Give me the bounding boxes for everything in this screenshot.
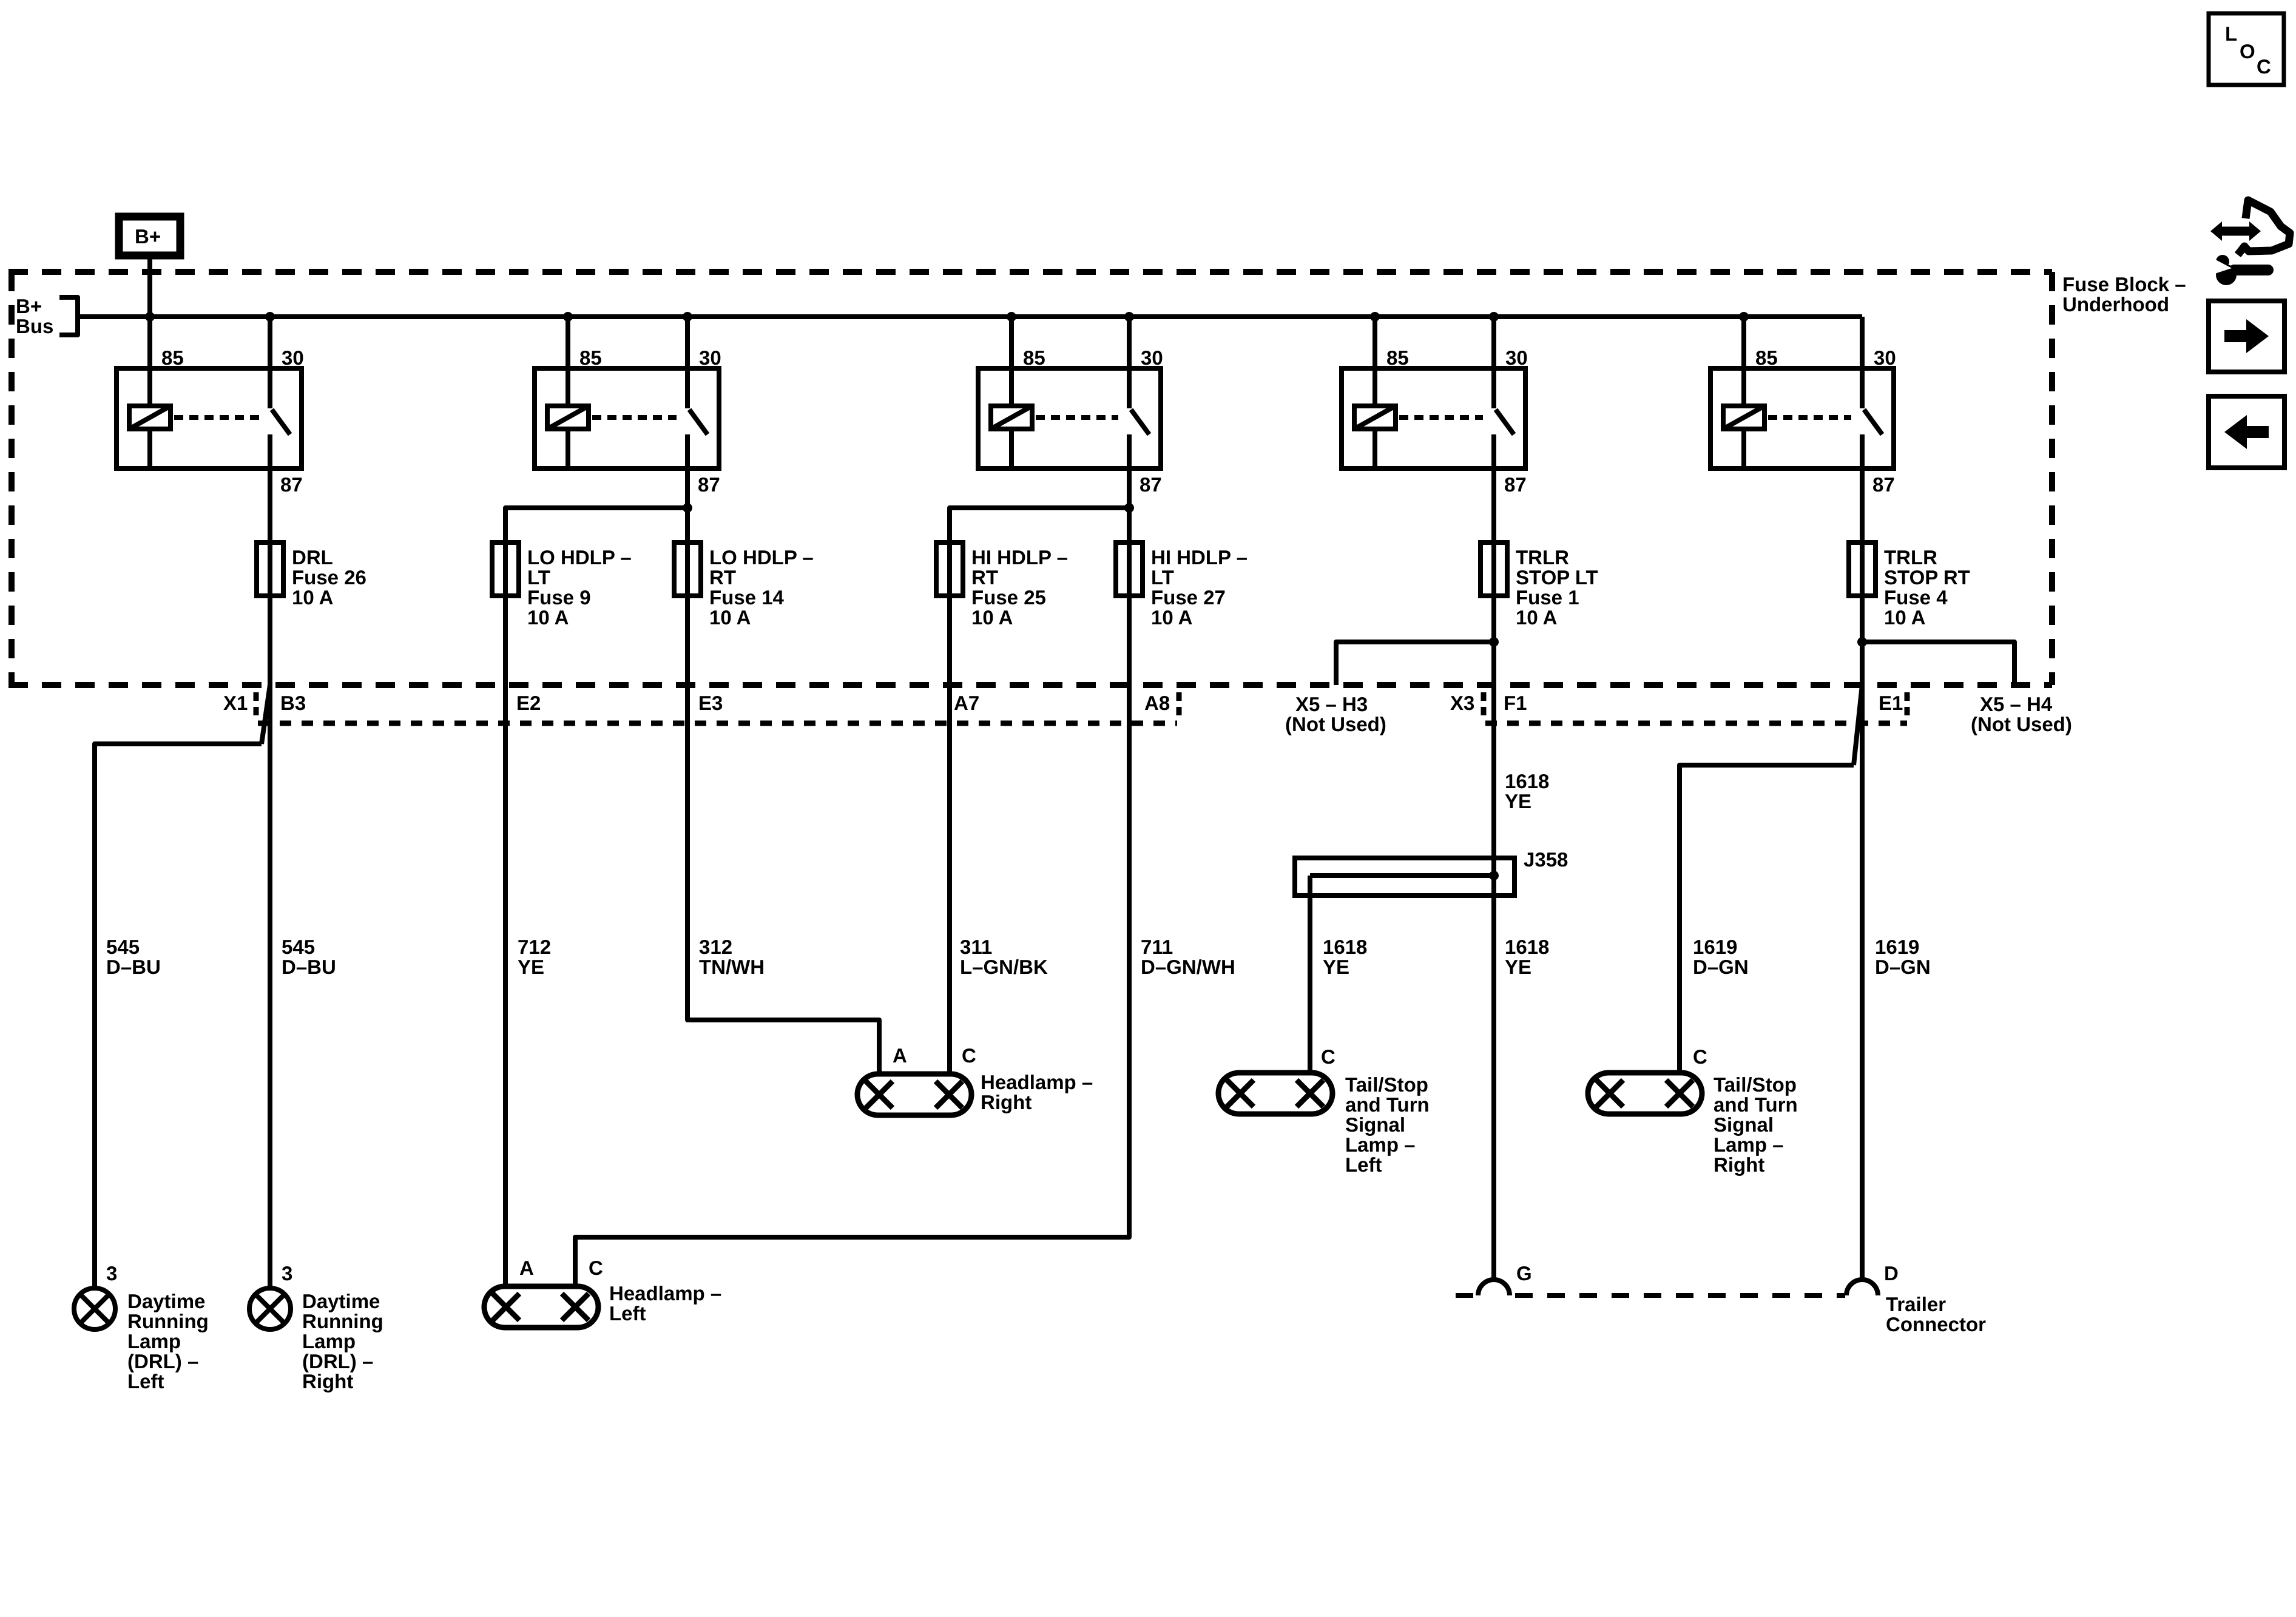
wire J358 to tail lamp left pin C xyxy=(1308,876,1312,1073)
label of F14 LO HDLP RT fuse xyxy=(709,546,814,629)
svg-text:Running: Running xyxy=(302,1310,383,1332)
svg-text:and Turn: and Turn xyxy=(1714,1093,1798,1116)
connector pin label X5-H3 not used xyxy=(1285,693,1386,735)
junction on bus at relay K2 HDLP LO relay pin 30 xyxy=(683,312,692,322)
relay K5 TRLR STOP RT PCB relay switch xyxy=(1862,368,1882,434)
svg-text:85: 85 xyxy=(1755,346,1778,369)
svg-text:Fuse 25: Fuse 25 xyxy=(971,586,1046,609)
svg-text:YE: YE xyxy=(518,956,544,978)
wire fuse 4 down to trailer connector pin D xyxy=(1860,596,1865,1280)
svg-text:87: 87 xyxy=(1504,473,1527,496)
junction below fuse 1 xyxy=(1489,637,1499,647)
svg-text:J358: J358 xyxy=(1524,848,1568,871)
wire bus to K2 HDLP LO relay pin 85 xyxy=(566,317,570,368)
svg-text:10 A: 10 A xyxy=(1516,606,1557,629)
svg-text:Left: Left xyxy=(609,1302,646,1325)
pin label 87 of K1 DRL PCB relay xyxy=(280,473,303,496)
relay K5 TRLR STOP RT PCB relay coil xyxy=(1723,368,1764,468)
svg-text:C: C xyxy=(589,1257,603,1279)
connector pin label X3 xyxy=(1450,692,1474,714)
svg-text:312: 312 xyxy=(699,936,732,958)
relay K1 DRL PCB relay box xyxy=(116,368,302,468)
wire K3 87 branch to fuse 25 xyxy=(950,508,1129,542)
pin label 3 of DRL left lamp xyxy=(106,1262,117,1284)
icon LOC box xyxy=(2209,13,2284,85)
svg-text:Running: Running xyxy=(127,1310,209,1332)
svg-text:YE: YE xyxy=(1505,956,1531,978)
svg-text:(DRL) –: (DRL) – xyxy=(302,1350,373,1372)
connector separator at E1-X5 xyxy=(1905,692,1910,718)
svg-text:85: 85 xyxy=(579,346,602,369)
relay K4 TRLR STOP LT PCB relay coil xyxy=(1354,368,1396,468)
svg-text:D–GN: D–GN xyxy=(1875,956,1931,978)
pin label G of trailer connector xyxy=(1516,1262,1532,1284)
wire bus to K3 HI BEAM PCB relay pin 85 xyxy=(1009,317,1014,368)
svg-text:10 A: 10 A xyxy=(527,606,569,629)
svg-text:LO HDLP –: LO HDLP – xyxy=(709,546,814,569)
wire branch to tail lamp right pin C xyxy=(1680,765,1854,1073)
svg-text:L–GN/BK: L–GN/BK xyxy=(960,956,1048,978)
svg-text:Fuse 9: Fuse 9 xyxy=(527,586,591,609)
fuse block dashed border bottom xyxy=(8,682,2052,688)
svg-text:Tail/Stop: Tail/Stop xyxy=(1345,1073,1428,1096)
svg-text:87: 87 xyxy=(1140,473,1162,496)
wire K2 87 branch to fuse 9 xyxy=(505,508,687,542)
relay K3 HI BEAM PCB relay box xyxy=(978,368,1161,468)
connector separator at A8-X5 xyxy=(1177,692,1182,718)
label of F4 TRLR STOP RT fuse xyxy=(1884,546,1970,629)
svg-text:1618: 1618 xyxy=(1505,936,1549,958)
svg-text:Signal: Signal xyxy=(1345,1113,1405,1136)
label of F9 LO HDLP LT fuse xyxy=(527,546,632,629)
label tail lamp left xyxy=(1345,1073,1430,1176)
svg-text:O: O xyxy=(2240,40,2255,62)
relay K1 DRL PCB relay coil-switch dashed link xyxy=(174,415,259,420)
svg-text:X5 – H3: X5 – H3 xyxy=(1295,693,1368,715)
svg-text:Signal: Signal xyxy=(1714,1113,1774,1136)
label DRL left lamp xyxy=(127,1290,209,1393)
splice J358 box xyxy=(1295,858,1514,896)
svg-text:1619: 1619 xyxy=(1693,936,1737,958)
svg-text:LT: LT xyxy=(527,566,550,589)
relay K5 TRLR STOP RT PCB relay box xyxy=(1710,368,1894,468)
junction on bus at relay K1 DRL PCB relay pin 85 xyxy=(145,312,155,322)
svg-text:Bus: Bus xyxy=(16,315,53,337)
relay K2 HDLP LO relay switch xyxy=(687,368,707,434)
svg-text:Left: Left xyxy=(127,1370,164,1393)
lamp Tail Stop Turn Signal Right xyxy=(1588,1073,1702,1114)
svg-text:D–BU: D–BU xyxy=(106,956,161,978)
fuse block dashed border top xyxy=(8,269,2052,275)
wire branch to DRL left lamp xyxy=(95,744,262,1288)
svg-text:10 A: 10 A xyxy=(971,606,1013,629)
connector pin label E2 xyxy=(516,692,541,714)
svg-text:STOP RT: STOP RT xyxy=(1884,566,1970,589)
svg-text:30: 30 xyxy=(282,346,304,369)
svg-text:X1: X1 xyxy=(223,692,248,714)
svg-text:Fuse Block –: Fuse Block – xyxy=(2062,273,2186,295)
svg-text:D–BU: D–BU xyxy=(282,956,336,978)
svg-text:545: 545 xyxy=(106,936,140,958)
svg-text:Tail/Stop: Tail/Stop xyxy=(1714,1073,1797,1096)
label of F27 HI HDLP LT fuse xyxy=(1151,546,1248,629)
label of F1 TRLR STOP LT fuse xyxy=(1516,546,1598,629)
pin label C of headlamp right xyxy=(962,1044,976,1067)
junction on bus at relay K5 TRLR STOP RT PCB relay pin 85 xyxy=(1739,312,1749,322)
relay K2 HDLP LO relay coil xyxy=(547,368,589,468)
fuse F4 TRLR STOP RT fuse xyxy=(1849,542,1876,596)
wire label 711 D–GN/WH xyxy=(1141,936,1235,978)
wire bus to K3 HI BEAM PCB relay pin 30 xyxy=(1127,317,1132,368)
relay K3 HI BEAM PCB relay coil xyxy=(991,368,1032,468)
connector separator at X3-F1 xyxy=(1481,692,1487,718)
icon data link connector with wrench xyxy=(2207,200,2290,285)
lamp Headlamp Right xyxy=(857,1074,971,1115)
wire K5 pin 87 to fuse 4 xyxy=(1860,434,1865,542)
svg-text:Lamp: Lamp xyxy=(302,1330,356,1352)
relay K5 TRLR STOP RT PCB relay coil-switch dashed link xyxy=(1768,415,1851,420)
pin label 30 of K5 TRLR STOP RT PCB relay xyxy=(1874,346,1896,369)
svg-text:3: 3 xyxy=(106,1262,117,1284)
svg-text:85: 85 xyxy=(161,346,184,369)
svg-text:TRLR: TRLR xyxy=(1516,546,1569,569)
svg-text:YE: YE xyxy=(1505,790,1531,812)
svg-text:311: 311 xyxy=(960,936,992,958)
label DRL right lamp xyxy=(302,1290,383,1393)
svg-text:D: D xyxy=(1884,1262,1899,1284)
trailer connector dashed link xyxy=(1456,1293,1845,1298)
connector separator at X1-B3 xyxy=(254,692,259,718)
svg-text:HI HDLP –: HI HDLP – xyxy=(1151,546,1248,569)
svg-text:10 A: 10 A xyxy=(1884,606,1925,629)
svg-text:L: L xyxy=(2225,22,2237,45)
connector pin label A7 xyxy=(954,692,979,714)
relay K2 HDLP LO relay coil-switch dashed link xyxy=(592,415,677,420)
label of F26 DRL fuse xyxy=(292,546,366,609)
svg-text:E1: E1 xyxy=(1879,692,1903,714)
wire branch E1 diagonal xyxy=(1854,685,1862,765)
pin label 85 of K1 DRL PCB relay xyxy=(161,346,184,369)
wire label 1619 D–GN xyxy=(1875,936,1931,978)
svg-text:1618: 1618 xyxy=(1505,770,1549,792)
connector dotted line right section xyxy=(1485,721,1907,726)
wire bus to K1 DRL PCB relay pin 30 xyxy=(268,317,272,368)
label Headlamp Left xyxy=(609,1282,721,1325)
svg-text:1619: 1619 xyxy=(1875,936,1919,958)
wire label 545 D–BU xyxy=(106,936,161,978)
fuse F1 TRLR STOP LT fuse xyxy=(1481,542,1507,596)
pin label 30 of K1 DRL PCB relay xyxy=(282,346,304,369)
label Headlamp Right xyxy=(981,1071,1093,1113)
wire label 1618 YE xyxy=(1323,936,1367,978)
junction on bus at relay K1 DRL PCB relay pin 30 xyxy=(265,312,275,322)
relay K4 TRLR STOP LT PCB relay box xyxy=(1342,368,1525,468)
wire B+ terminal to bus xyxy=(147,255,152,317)
pin label D of trailer connector xyxy=(1884,1262,1899,1284)
svg-text:F1: F1 xyxy=(1504,692,1527,714)
fuse F9 LO HDLP LT fuse xyxy=(492,542,519,596)
svg-text:711: 711 xyxy=(1141,936,1173,958)
pin label A of headlamp left xyxy=(519,1257,534,1279)
trailer connector pin G arc xyxy=(1478,1280,1510,1295)
svg-text:Underhood: Underhood xyxy=(2062,293,2169,316)
svg-text:Lamp: Lamp xyxy=(127,1330,181,1352)
svg-text:LT: LT xyxy=(1151,566,1174,589)
junction K2 87 split xyxy=(683,503,692,513)
connector dotted line left section xyxy=(258,721,1177,726)
pin label 87 of K3 HI BEAM PCB relay xyxy=(1140,473,1162,496)
svg-text:C: C xyxy=(962,1044,976,1067)
svg-text:YE: YE xyxy=(1323,956,1349,978)
connector pin label E3 xyxy=(698,692,723,714)
connector pin label X5-H4 not used xyxy=(1971,693,2072,735)
svg-text:HI HDLP –: HI HDLP – xyxy=(971,546,1068,569)
wire K3 pin 87 down xyxy=(1127,434,1132,542)
relay K4 TRLR STOP LT PCB relay switch xyxy=(1494,368,1514,434)
wire fuse 27 to connector A8 and headlamp left pin C xyxy=(575,596,1129,1286)
wire label 1618 YE xyxy=(1505,936,1549,978)
pin label 30 of K3 HI BEAM PCB relay xyxy=(1141,346,1163,369)
svg-text:10 A: 10 A xyxy=(292,586,333,609)
fuse F25 HI HDLP RT fuse xyxy=(936,542,963,596)
connector pin label X1 xyxy=(223,692,248,714)
svg-text:1618: 1618 xyxy=(1323,936,1367,958)
label tail lamp right xyxy=(1714,1073,1798,1176)
wire fuse 14 to connector E3 and headlamp right pin A xyxy=(687,596,879,1074)
svg-text:C: C xyxy=(1693,1045,1707,1068)
wire bus to K4 TRLR STOP LT PCB relay pin 30 xyxy=(1491,317,1496,368)
svg-text:TN/WH: TN/WH xyxy=(699,956,765,978)
svg-text:E3: E3 xyxy=(698,692,723,714)
junction on bus at relay K4 TRLR STOP LT PCB relay pin 85 xyxy=(1370,312,1380,322)
pin label C of tail lamp right xyxy=(1693,1045,1707,1068)
svg-text:C: C xyxy=(2257,55,2271,78)
wire bus to K2 HDLP LO relay pin 30 xyxy=(685,317,690,368)
svg-text:B+: B+ xyxy=(135,225,161,248)
wire fuse 9 to connector E2 and headlamp left pin A xyxy=(503,596,508,1286)
pin label 85 of K4 TRLR STOP LT PCB relay xyxy=(1386,346,1409,369)
wire fuse 26 to connector B3 and DRL right lamp xyxy=(268,596,272,1288)
junction below fuse 4 xyxy=(1857,637,1867,647)
junction at splice J358 xyxy=(1489,871,1499,880)
svg-text:Fuse 26: Fuse 26 xyxy=(292,566,366,589)
svg-text:C: C xyxy=(1321,1045,1335,1068)
wire bus to K5 TRLR STOP RT PCB relay pin 85 xyxy=(1741,317,1746,368)
svg-text:A: A xyxy=(519,1257,534,1279)
svg-text:A7: A7 xyxy=(954,692,979,714)
svg-text:D–GN: D–GN xyxy=(1693,956,1749,978)
pin label 85 of K5 TRLR STOP RT PCB relay xyxy=(1755,346,1778,369)
wire K2 pin 87 down xyxy=(685,434,690,542)
junction on bus at relay K3 HI BEAM PCB relay pin 30 xyxy=(1124,312,1134,322)
pin label C of tail lamp left xyxy=(1321,1045,1335,1068)
relay K1 DRL PCB relay coil xyxy=(129,368,171,468)
svg-text:TRLR: TRLR xyxy=(1884,546,1937,569)
wire fuse 25 to connector A7 and headlamp right pin C xyxy=(947,596,952,1074)
wire label 1618 YE above splice xyxy=(1505,770,1549,812)
svg-text:X5 – H4: X5 – H4 xyxy=(1980,693,2053,715)
lamp Daytime Running Lamp DRL Left xyxy=(74,1288,115,1329)
svg-text:RT: RT xyxy=(709,566,736,589)
lamp Headlamp Left xyxy=(484,1286,598,1328)
wire label 312 TN/WH xyxy=(699,936,765,978)
svg-text:30: 30 xyxy=(699,346,721,369)
svg-text:Connector: Connector xyxy=(1886,1313,1986,1335)
svg-text:10 A: 10 A xyxy=(709,606,751,629)
B+ power terminal xyxy=(119,217,180,255)
svg-text:DRL: DRL xyxy=(292,546,333,569)
wire label 1619 D–GN xyxy=(1693,936,1749,978)
svg-text:Daytime: Daytime xyxy=(127,1290,205,1312)
svg-text:STOP LT: STOP LT xyxy=(1516,566,1598,589)
relay K2 HDLP LO relay box xyxy=(535,368,719,468)
fuse F14 LO HDLP RT fuse xyxy=(674,542,701,596)
lamp Tail Stop Turn Signal Left xyxy=(1218,1073,1332,1114)
splice J358 internal wire xyxy=(1310,873,1494,878)
label of F25 HI HDLP RT fuse xyxy=(971,546,1068,629)
fuse block dashed border left xyxy=(8,272,15,685)
wire bus to K5 TRLR STOP RT PCB relay pin 30 xyxy=(1860,317,1865,368)
svg-text:X3: X3 xyxy=(1450,692,1474,714)
svg-text:Fuse 14: Fuse 14 xyxy=(709,586,785,609)
svg-text:A8: A8 xyxy=(1144,692,1170,714)
connector pin label B3 xyxy=(280,692,306,714)
svg-text:B3: B3 xyxy=(280,692,306,714)
svg-text:Lamp –: Lamp – xyxy=(1345,1133,1416,1156)
pin label 87 of K2 HDLP LO relay xyxy=(698,473,720,496)
wire stub to X5-H3 not used xyxy=(1336,642,1494,685)
svg-text:Headlamp –: Headlamp – xyxy=(981,1071,1093,1093)
svg-text:Trailer: Trailer xyxy=(1886,1293,1946,1315)
junction K3 87 split xyxy=(1124,503,1134,513)
svg-text:Left: Left xyxy=(1345,1153,1382,1176)
svg-text:Fuse 1: Fuse 1 xyxy=(1516,586,1579,609)
svg-text:30: 30 xyxy=(1874,346,1896,369)
svg-text:545: 545 xyxy=(282,936,315,958)
relay K3 HI BEAM PCB relay switch xyxy=(1129,368,1149,434)
icon backward arrow box xyxy=(2209,396,2284,468)
connector pin label A8 xyxy=(1144,692,1170,714)
fuse block dashed border right xyxy=(2049,272,2055,685)
svg-text:Right: Right xyxy=(302,1370,353,1393)
svg-text:RT: RT xyxy=(971,566,998,589)
label Trailer Connector xyxy=(1886,1293,1986,1335)
svg-text:B+: B+ xyxy=(16,295,42,317)
trailer connector pin D arc xyxy=(1846,1280,1878,1295)
pin label 85 of K2 HDLP LO relay xyxy=(579,346,602,369)
wire stub to X5-H4 not used xyxy=(1862,642,2014,685)
pin label 30 of K2 HDLP LO relay xyxy=(699,346,721,369)
svg-text:85: 85 xyxy=(1386,346,1409,369)
svg-text:and Turn: and Turn xyxy=(1345,1093,1430,1116)
svg-text:(Not Used): (Not Used) xyxy=(1971,713,2072,735)
B+ bus wire xyxy=(78,314,1862,319)
wire K1 pin 87 to fuse 26 xyxy=(268,434,272,542)
wire K4 pin 87 to fuse 1 xyxy=(1491,434,1496,542)
svg-text:85: 85 xyxy=(1023,346,1045,369)
svg-text:10 A: 10 A xyxy=(1151,606,1192,629)
B+ Bus symbol xyxy=(16,295,78,337)
svg-text:A: A xyxy=(893,1044,907,1067)
svg-text:LO HDLP –: LO HDLP – xyxy=(527,546,632,569)
pin label C of headlamp left xyxy=(589,1257,603,1279)
svg-text:30: 30 xyxy=(1505,346,1528,369)
svg-text:3: 3 xyxy=(282,1262,292,1284)
relay K4 TRLR STOP LT PCB relay coil-switch dashed link xyxy=(1399,415,1483,420)
label J358 xyxy=(1524,848,1568,871)
wire bus to K4 TRLR STOP LT PCB relay pin 85 xyxy=(1373,317,1377,368)
wire fuse 1 down to trailer connector pin G xyxy=(1491,596,1496,1280)
svg-text:87: 87 xyxy=(1872,473,1895,496)
pin label 30 of K4 TRLR STOP LT PCB relay xyxy=(1505,346,1528,369)
svg-text:Headlamp –: Headlamp – xyxy=(609,1282,721,1305)
svg-text:87: 87 xyxy=(280,473,303,496)
connector pin label E1 xyxy=(1879,692,1903,714)
fuse F27 HI HDLP LT fuse xyxy=(1116,542,1143,596)
svg-text:87: 87 xyxy=(698,473,720,496)
svg-text:Lamp –: Lamp – xyxy=(1714,1133,1784,1156)
fuse F26 DRL fuse xyxy=(257,542,283,596)
wire label 545 D–BU xyxy=(282,936,336,978)
connector pin label F1 xyxy=(1504,692,1527,714)
pin label 85 of K3 HI BEAM PCB relay xyxy=(1023,346,1045,369)
relay K1 DRL PCB relay switch xyxy=(270,368,290,434)
wire label 712 YE xyxy=(518,936,551,978)
svg-text:E2: E2 xyxy=(516,692,541,714)
svg-text:Right: Right xyxy=(1714,1153,1764,1176)
wire label 311 L–GN/BK xyxy=(960,936,1048,978)
wire bus to K1 DRL PCB relay pin 85 xyxy=(147,317,152,368)
pin label 87 of K4 TRLR STOP LT PCB relay xyxy=(1504,473,1527,496)
pin label A of headlamp right xyxy=(893,1044,907,1067)
icon forward arrow box xyxy=(2209,301,2284,372)
svg-text:Daytime: Daytime xyxy=(302,1290,380,1312)
svg-text:Fuse 27: Fuse 27 xyxy=(1151,586,1226,609)
junction on bus at relay K4 TRLR STOP LT PCB relay pin 30 xyxy=(1489,312,1499,322)
svg-text:Fuse 4: Fuse 4 xyxy=(1884,586,1948,609)
svg-text:30: 30 xyxy=(1141,346,1163,369)
pin label 87 of K5 TRLR STOP RT PCB relay xyxy=(1872,473,1895,496)
wire branch B3 diagonal xyxy=(262,685,270,744)
svg-text:Right: Right xyxy=(981,1091,1032,1113)
junction on bus at relay K2 HDLP LO relay pin 85 xyxy=(563,312,573,322)
svg-text:(DRL) –: (DRL) – xyxy=(127,1350,198,1372)
svg-text:G: G xyxy=(1516,1262,1532,1284)
relay K3 HI BEAM PCB relay coil-switch dashed link xyxy=(1036,415,1118,420)
pin label 3 of DRL right lamp xyxy=(282,1262,292,1284)
lamp Daytime Running Lamp DRL Right xyxy=(249,1288,291,1329)
svg-text:D–GN/WH: D–GN/WH xyxy=(1141,956,1235,978)
svg-text:(Not Used): (Not Used) xyxy=(1285,713,1386,735)
label Fuse Block - Underhood xyxy=(2062,273,2186,316)
svg-text:712: 712 xyxy=(518,936,551,958)
junction on bus at relay K3 HI BEAM PCB relay pin 85 xyxy=(1007,312,1016,322)
